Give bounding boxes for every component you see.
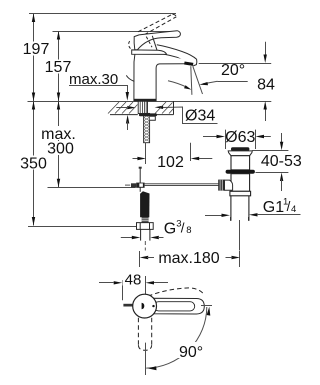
handle head circle bbox=[133, 294, 157, 318]
label 350 bbox=[20, 156, 47, 170]
spout lower top line bbox=[158, 53, 193, 62]
washer under counter bbox=[139, 113, 157, 116]
solid lever blade bbox=[134, 31, 180, 50]
G3/8 connection nut bbox=[137, 223, 154, 230]
svg-text:G1: G1 bbox=[263, 199, 284, 216]
threaded shank sleeve bbox=[138, 101, 147, 113]
svg-text:Ø63: Ø63 bbox=[225, 129, 255, 146]
svg-text:8: 8 bbox=[186, 225, 191, 236]
label 20 degrees with shelf and leaders bbox=[168, 62, 248, 90]
svg-text:G: G bbox=[164, 221, 176, 238]
label 300 bbox=[47, 141, 74, 155]
water stream 20 degree line bbox=[193, 66, 203, 94]
pull rod bbox=[139, 167, 142, 192]
dimension line 197/350 bbox=[32, 14, 35, 226]
svg-text:/: / bbox=[181, 221, 185, 236]
aerator bbox=[184, 62, 193, 66]
svg-text:90°: 90° bbox=[179, 344, 203, 361]
svg-text:Ø34: Ø34 bbox=[185, 108, 215, 125]
threaded stud with nut bbox=[144, 113, 150, 142]
waste plug bbox=[231, 147, 249, 151]
lever base right edge bbox=[152, 36, 157, 50]
label 197 bbox=[23, 42, 49, 56]
svg-text:157: 157 bbox=[45, 59, 72, 76]
countertop reference line bbox=[28, 101, 272, 103]
dimension 102 bbox=[133, 143, 213, 171]
90 degree reference line horizontal bbox=[201, 305, 212, 307]
dimension 40-53 bbox=[252, 133, 302, 191]
svg-text:350: 350 bbox=[20, 156, 47, 173]
dashed raised lever bbox=[138, 14, 176, 34]
dashed rotated-up lever top view bbox=[148, 288, 204, 296]
lever housing bbox=[225, 180, 233, 190]
pull rod cross fitting bbox=[125, 183, 145, 188]
label max. bbox=[41, 126, 76, 140]
dimension max.180 bbox=[140, 250, 241, 267]
label G 3/8 with arrows bbox=[121, 218, 192, 239]
dimension diameter 63 bbox=[203, 129, 271, 149]
centerline to 102 bbox=[145, 143, 147, 152]
label max.30 with leader and arrows bbox=[69, 71, 129, 130]
tick line top 197 bbox=[29, 13, 176, 15]
svg-text:40-53: 40-53 bbox=[261, 153, 302, 170]
dashed lever butt swing arc bbox=[129, 40, 135, 51]
pivot half-disc bbox=[142, 303, 145, 310]
lever collar band bbox=[132, 50, 167, 55]
faucet base plate bbox=[134, 99, 156, 101]
dimension diameter 34 with leader bbox=[116, 106, 217, 125]
svg-text:max.180: max.180 bbox=[158, 250, 219, 267]
arc arrowhead up bbox=[207, 307, 211, 316]
handle lever capsule top view bbox=[151, 298, 205, 314]
label 90 degrees bbox=[176, 342, 204, 358]
countertop hatched left block bbox=[108, 102, 138, 115]
waste collar bbox=[230, 191, 251, 196]
handle pin stub bbox=[123, 304, 132, 307]
waste centerline bbox=[239, 220, 241, 251]
svg-text:102: 102 bbox=[157, 154, 184, 171]
svg-text:300: 300 bbox=[47, 141, 74, 158]
waste upper body bbox=[231, 156, 250, 170]
small dot on lever bbox=[152, 305, 154, 307]
waste lower body bbox=[231, 174, 250, 192]
tick line 350 bottom bbox=[28, 226, 137, 228]
tick line max300 bottom bbox=[48, 187, 136, 189]
tick line 157 bbox=[53, 31, 180, 33]
90 degree arc bbox=[146, 307, 207, 368]
lever knurled knob bbox=[218, 180, 224, 191]
spout upper curve and nose bbox=[157, 45, 197, 66]
label G1 1/4 with line and arrows bbox=[205, 197, 301, 221]
90 degree reference leg bbox=[145, 343, 147, 375]
label 157 bbox=[45, 60, 71, 74]
mounting nut bbox=[150, 116, 156, 120]
waste cup bbox=[228, 151, 252, 156]
dimension line 157/max300 bbox=[57, 31, 60, 187]
svg-text:48: 48 bbox=[125, 272, 142, 289]
dimension 48 bbox=[99, 272, 168, 301]
dashed centerline under tube bbox=[144, 241, 146, 251]
water stream vertical line bbox=[191, 66, 192, 95]
countertop hatched right block bbox=[152, 101, 174, 115]
handle lever inner line bbox=[154, 302, 195, 311]
svg-text:4: 4 bbox=[291, 204, 296, 215]
dashed rotated-down lever top view bbox=[138, 318, 151, 351]
flexible hose bbox=[140, 191, 149, 222]
arc arrowhead left bbox=[148, 366, 157, 370]
waste flange gasket bbox=[226, 170, 255, 174]
pull knob on body bbox=[127, 76, 134, 82]
waste tailpipe bbox=[231, 196, 249, 221]
supply tube under nut bbox=[141, 229, 150, 240]
dimension 84 bbox=[199, 42, 275, 121]
faucet body column bbox=[134, 54, 185, 100]
svg-text:/: / bbox=[287, 199, 291, 214]
svg-text:197: 197 bbox=[23, 41, 50, 58]
horizontal pop-up rod bbox=[145, 184, 219, 186]
svg-text:20°: 20° bbox=[221, 62, 245, 79]
svg-text:84: 84 bbox=[257, 77, 275, 94]
dashed hidden stem in lever bbox=[146, 37, 152, 48]
